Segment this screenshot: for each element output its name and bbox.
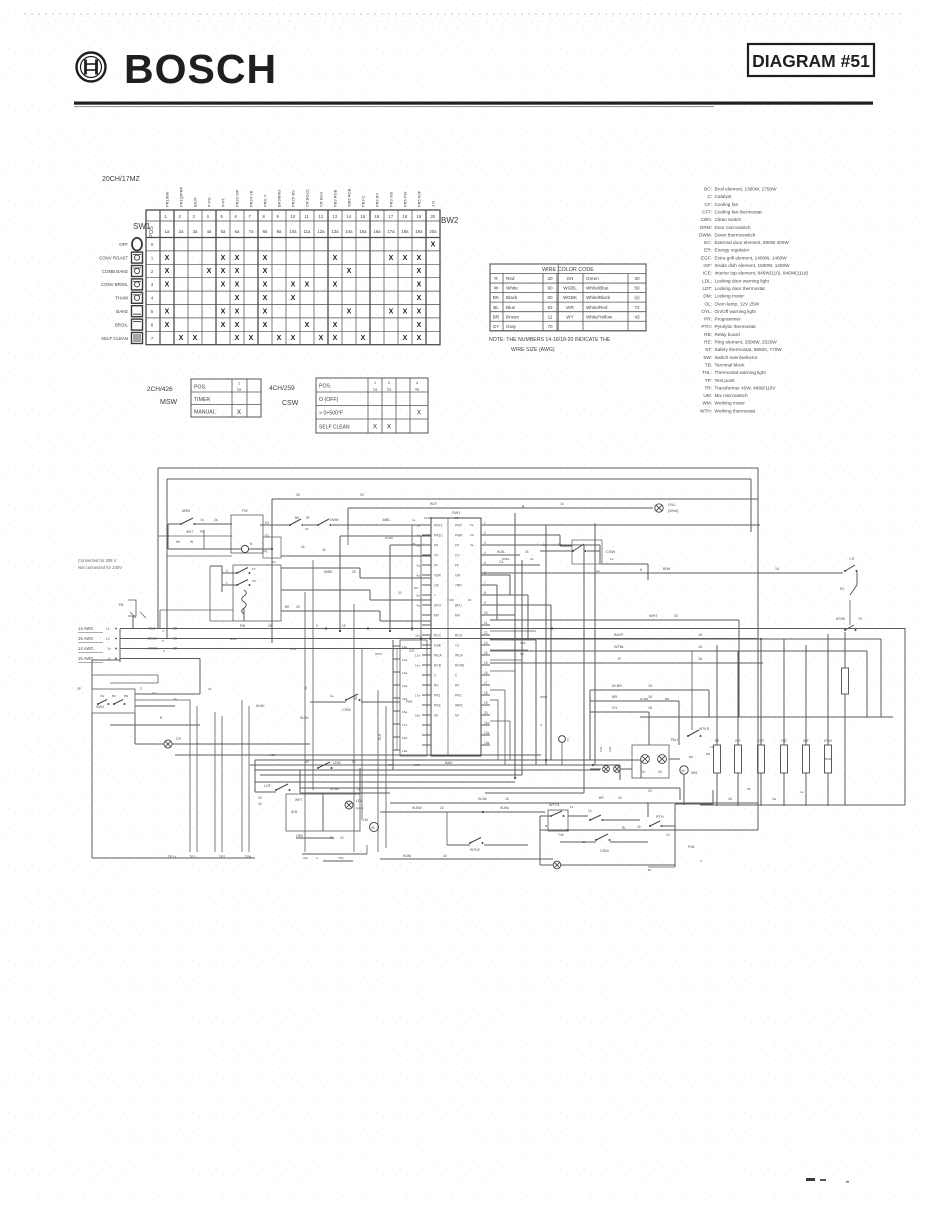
svg-text:(pilot): (pilot) [356, 806, 364, 810]
svg-text:UF: UF [434, 714, 438, 718]
svg-text:CF:: CF: [704, 202, 712, 207]
svg-text:BR: BR [665, 697, 670, 701]
svg-text:OL: OL [641, 770, 646, 774]
svg-text:WM: WM [691, 771, 697, 775]
svg-text:PB3 RGB: PB3 RGB [333, 189, 338, 207]
svg-text:WY: WY [566, 314, 573, 319]
svg-text:WR: WR [566, 305, 574, 310]
svg-text:PR1C: PR1C [434, 534, 443, 538]
svg-text:BROIL: BROIL [115, 322, 129, 327]
svg-text:X: X [165, 255, 170, 262]
svg-text:13a: 13a [402, 671, 407, 675]
svg-text:1a: 1a [800, 790, 804, 794]
svg-text:WIRE SIZE (AWG): WIRE SIZE (AWG) [511, 347, 555, 353]
svg-text:18a: 18a [402, 736, 407, 740]
svg-text:3: 3 [163, 649, 165, 653]
svg-text:White: White [506, 286, 518, 291]
svg-text:13: 13 [484, 641, 488, 645]
svg-text:TIMER: TIMER [194, 397, 210, 403]
svg-text:6: 6 [640, 568, 642, 572]
svg-text:Thermostat warning light: Thermostat warning light [715, 370, 767, 375]
svg-text:W-BW: W-BW [412, 806, 423, 810]
svg-text:24: 24 [525, 550, 529, 554]
svg-text:Relay board: Relay board [715, 332, 741, 337]
svg-text:10a: 10a [289, 229, 297, 234]
svg-text:W-R: W-R [378, 733, 382, 740]
svg-text:X: X [207, 268, 212, 275]
svg-text:X: X [291, 335, 296, 342]
svg-text:COMB BAKE: COMB BAKE [102, 269, 128, 274]
svg-text:16: 16 [698, 645, 702, 649]
svg-text:X: X [403, 255, 408, 262]
svg-text:X: X [417, 268, 422, 275]
svg-text:CR BG(2): CR BG(2) [305, 189, 310, 207]
svg-text:FW: FW [242, 509, 248, 513]
svg-text:4a: 4a [207, 229, 212, 234]
svg-text:B/LW: B/LW [193, 197, 198, 207]
svg-text:20: 20 [468, 598, 472, 602]
svg-text:16: 16 [484, 671, 488, 675]
svg-text:2a: 2a [179, 229, 184, 234]
svg-text:X: X [333, 282, 338, 289]
svg-text:16a: 16a [402, 710, 407, 714]
svg-text:BC:: BC: [704, 187, 712, 192]
svg-text:30: 30 [634, 276, 640, 281]
svg-text:PR:: PR: [704, 317, 712, 322]
svg-text:11a: 11a [484, 721, 489, 725]
svg-text:ATHB: ATHB [836, 617, 846, 621]
svg-text:13: 13 [570, 805, 574, 809]
svg-text:WHT: WHT [295, 798, 302, 802]
svg-text:Door microswitch: Door microswitch [715, 225, 751, 230]
svg-text:X: X [221, 268, 226, 275]
svg-text:20: 20 [352, 760, 356, 764]
svg-text:11a: 11a [415, 634, 420, 638]
svg-text:20: 20 [648, 789, 652, 793]
svg-text:X: X [319, 335, 324, 342]
svg-text:15a: 15a [359, 229, 367, 234]
svg-text:BR: BR [493, 314, 500, 319]
svg-text:BR: BR [599, 796, 604, 800]
svg-text:White/Yellow: White/Yellow [586, 314, 613, 319]
svg-text:82: 82 [547, 305, 553, 310]
svg-text:20: 20 [547, 276, 553, 281]
svg-text:Working thermostat: Working thermostat [715, 408, 756, 413]
svg-text:Programmer: Programmer [715, 317, 741, 322]
svg-text:PR1/BW: PR1/BW [165, 191, 170, 207]
svg-text:X: X [417, 335, 422, 342]
svg-text:Brown: Brown [506, 314, 519, 319]
svg-text:BK6/BW3: BK6/BW3 [277, 189, 282, 207]
svg-text:BOSCH: BOSCH [124, 46, 277, 92]
svg-text:Inside dish element, 1500W, 14: Inside dish element, 1500W, 1400W [715, 263, 791, 268]
svg-text:2: 2 [484, 531, 486, 535]
svg-text:20: 20 [484, 711, 488, 715]
svg-text:PR24 VB: PR24 VB [249, 190, 254, 207]
svg-text:PR1: PR1 [434, 694, 441, 698]
svg-text:16a: 16a [373, 229, 381, 234]
svg-text:LOF: LOF [264, 784, 272, 788]
svg-text:FF: FF [455, 564, 459, 568]
svg-text:16: 16 [698, 657, 702, 661]
svg-text:Hb: Hb [176, 540, 180, 544]
svg-text:(x): (x) [634, 295, 640, 300]
svg-text:11a: 11a [304, 229, 311, 234]
svg-text:SELF CLEAN: SELF CLEAN [101, 336, 128, 341]
svg-text:M: M [372, 826, 375, 830]
svg-text:UF: UF [388, 763, 392, 767]
svg-text:13a: 13a [415, 654, 420, 658]
svg-text:THAW: THAW [115, 296, 129, 301]
svg-text:PR1Q/PRP: PR1Q/PRP [179, 186, 184, 207]
svg-text:7: 7 [484, 581, 486, 585]
svg-text:MV: MV [455, 614, 461, 618]
svg-text:X: X [237, 410, 241, 416]
svg-text:C/R: C/R [520, 641, 526, 645]
svg-text:14 AWG: 14 AWG [78, 646, 93, 651]
svg-text:W-BR: W-BR [640, 697, 649, 701]
svg-text:20: 20 [674, 614, 678, 618]
svg-text:Oven lamp, 12V 25W: Oven lamp, 12V 25W [715, 301, 760, 306]
svg-text:X: X [305, 322, 310, 329]
svg-text:12a: 12a [402, 658, 407, 662]
svg-text:43: 43 [634, 314, 640, 319]
svg-text:25: 25 [352, 570, 356, 574]
svg-text:X: X [263, 295, 268, 302]
svg-text:X: X [417, 411, 421, 417]
svg-text:X: X [431, 241, 436, 248]
svg-text:2P: 2P [77, 687, 81, 691]
svg-text:30: 30 [354, 696, 358, 700]
svg-text:PR25 MV: PR25 MV [291, 190, 296, 207]
svg-text:PALI: PALI [671, 738, 678, 742]
svg-text:X: X [389, 308, 394, 315]
svg-text:X: X [417, 308, 422, 315]
svg-text:12E: 12E [608, 747, 612, 752]
svg-text:W: W [190, 540, 193, 544]
svg-text:GP: GP [414, 586, 418, 590]
svg-text:RB:: RB: [704, 332, 712, 337]
svg-text:Broil element, 1300W, 1750W: Broil element, 1300W, 1750W [715, 187, 778, 192]
svg-text:OFF: OFF [119, 242, 128, 247]
svg-text:MV: MV [434, 614, 440, 618]
svg-text:14 AWG: 14 AWG [78, 626, 93, 631]
svg-text:X: X [333, 335, 338, 342]
svg-text:14a: 14a [415, 664, 420, 668]
svg-text:Gray: Gray [506, 324, 517, 329]
svg-text:CSW: CSW [282, 400, 299, 407]
svg-text:X: X [263, 322, 268, 329]
svg-text:BAKE: BAKE [116, 309, 128, 314]
svg-text:20: 20 [398, 591, 402, 595]
svg-text:11: 11 [710, 745, 713, 749]
svg-text:15 AWG: 15 AWG [78, 656, 93, 661]
svg-text:16: 16 [637, 825, 641, 829]
svg-text:SW1: SW1 [133, 222, 151, 231]
svg-text:ISF:: ISF: [703, 263, 712, 268]
svg-text:SW:: SW: [703, 355, 712, 360]
svg-text:25: 25 [296, 605, 300, 609]
svg-text:X: X [333, 255, 338, 262]
svg-text:2CH/426: 2CH/426 [147, 386, 173, 393]
svg-text:24: 24 [530, 557, 534, 561]
svg-text:X: X [361, 335, 366, 342]
svg-text:17a: 17a [415, 694, 420, 698]
svg-text:SW1: SW1 [452, 510, 461, 515]
svg-text:X: X [221, 282, 226, 289]
svg-text:On/Off warning light: On/Off warning light [715, 309, 757, 314]
svg-text:OYL:: OYL: [701, 309, 712, 314]
svg-text:P-PG: P-PG [207, 197, 212, 207]
svg-text:W-R: W-R [430, 502, 437, 506]
svg-text:11: 11 [484, 621, 488, 625]
svg-text:W/BK: W/BK [324, 570, 333, 574]
svg-text:MANUAL: MANUAL [194, 410, 216, 416]
svg-text:R2: R2 [840, 587, 844, 591]
svg-text:UM:: UM: [703, 393, 712, 398]
svg-text:X: X [700, 859, 702, 863]
svg-text:1a: 1a [610, 557, 614, 561]
svg-text:W-BK: W-BK [256, 704, 266, 708]
svg-text:1.R: 1.R [849, 557, 855, 561]
svg-text:O (OFF): O (OFF) [319, 397, 339, 403]
svg-text:4: 4 [162, 629, 164, 633]
svg-text:WGBL: WGBL [563, 286, 577, 291]
svg-text:FF: FF [434, 564, 438, 568]
svg-text:X: X [263, 255, 268, 262]
svg-text:X: X [165, 322, 170, 329]
svg-text:LDL:: LDL: [702, 278, 712, 283]
svg-text:6a: 6a [235, 229, 240, 234]
svg-text:W-BK: W-BK [300, 716, 310, 720]
svg-text:11: 11 [548, 314, 553, 319]
svg-text:Transformer 40W, 4889/110V: Transformer 40W, 4889/110V [715, 385, 777, 390]
svg-text:B: B [160, 716, 162, 720]
svg-text:2a: 2a [214, 518, 218, 522]
svg-text:W-BL: W-BL [497, 550, 505, 554]
svg-text:14: 14 [484, 651, 488, 655]
svg-text:Switch oven/selector: Switch oven/selector [715, 355, 758, 360]
svg-text:W/BL: W/BL [502, 557, 510, 561]
svg-text:4: 4 [484, 551, 486, 555]
svg-text:2a: 2a [417, 534, 421, 538]
svg-text:34: 34 [322, 548, 326, 552]
svg-text:1a: 1a [165, 229, 170, 234]
svg-text:TB:: TB: [705, 362, 712, 367]
svg-text:PRZ: PRZ [434, 704, 441, 708]
svg-text:14a: 14a [402, 684, 407, 688]
svg-text:WTh'D: WTh'D [699, 727, 710, 731]
svg-text:16: 16 [698, 633, 702, 637]
svg-text:24: 24 [666, 833, 670, 837]
svg-text:W-Bk: W-Bk [330, 787, 339, 791]
svg-text:16: 16 [440, 806, 444, 810]
svg-text:WTH:: WTH: [700, 408, 712, 413]
svg-text:26: 26 [412, 542, 416, 546]
svg-text:B.: B. [545, 824, 548, 828]
svg-text:W/R: W/R [414, 763, 421, 767]
svg-text:24: 24 [305, 527, 309, 531]
svg-text:L: L [226, 581, 228, 585]
svg-text:5a: 5a [417, 564, 421, 568]
svg-text:Interior top element, 846W(110: Interior top element, 846W(110), 846W(11… [715, 271, 809, 276]
svg-text:5: 5 [162, 639, 164, 643]
svg-text:ST:: ST: [705, 347, 712, 352]
svg-text:White/Black: White/Black [586, 295, 611, 300]
svg-text:8a: 8a [263, 229, 268, 234]
svg-text:12a: 12a [317, 229, 325, 234]
svg-text:BR: BR [285, 605, 290, 609]
svg-text:CSW: CSW [606, 549, 616, 554]
svg-text:PRY1: PRY1 [434, 524, 443, 528]
svg-text:PR5 RJF: PR5 RJF [417, 190, 422, 207]
svg-text:2: 2 [388, 381, 390, 385]
svg-text:AQ: AQ [263, 549, 268, 553]
svg-text:ICE:: ICE: [703, 271, 712, 276]
svg-text:WIRE COLOR CODE: WIRE COLOR CODE [542, 267, 594, 273]
svg-text:X: X [347, 308, 352, 315]
svg-text:WCA: WCA [434, 654, 442, 658]
svg-text:3a: 3a [193, 229, 198, 234]
svg-text:PR3 WS: PR3 WS [389, 191, 394, 207]
svg-text:TP2: TP2 [219, 855, 226, 859]
svg-text:W-BR: W-BR [612, 684, 622, 688]
svg-text:OVL: OVL [668, 503, 676, 507]
svg-text:Catalyst: Catalyst [715, 194, 733, 199]
svg-text:PB3 C: PB3 C [361, 195, 366, 207]
svg-text:12a: 12a [484, 731, 490, 735]
svg-text:19: 19 [417, 214, 422, 219]
svg-text:DWM: DWM [330, 518, 339, 522]
svg-text:Mix microswitch: Mix microswitch [715, 393, 748, 398]
svg-text:PRP: PRP [455, 524, 463, 528]
svg-text:C2: C2 [520, 652, 524, 656]
svg-text:18: 18 [648, 695, 652, 699]
svg-text:LRM: LRM [296, 834, 303, 838]
svg-text:Terminal block: Terminal block [715, 362, 746, 367]
svg-text:OL: OL [658, 770, 663, 774]
svg-text:9: 9 [316, 624, 318, 628]
svg-text:PR5 PW: PR5 PW [403, 191, 408, 207]
svg-text:Extra grill element, 1400W, 14: Extra grill element, 1400W, 1460W [715, 255, 788, 260]
svg-text:Wh/te/Blue: Wh/te/Blue [586, 286, 609, 291]
svg-text:Safety thermostat, 86500, 770W: Safety thermostat, 86500, 770W [715, 347, 783, 352]
svg-text:17: 17 [389, 214, 394, 219]
svg-text:X: X [333, 322, 338, 329]
svg-text:Ring element, 2500W, 2520W: Ring element, 2500W, 2520W [715, 340, 778, 345]
svg-text:Down thermoswitch: Down thermoswitch [715, 232, 756, 237]
svg-text:X: X [263, 268, 268, 275]
svg-text:PR2: PR2 [455, 694, 462, 698]
svg-text:LDF: LDF [270, 753, 276, 757]
svg-text:X: X [249, 335, 254, 342]
svg-text:X: X [305, 282, 310, 289]
svg-text:90: 90 [547, 286, 553, 291]
svg-text:19: 19 [484, 701, 488, 705]
svg-text:W/R: W/R [290, 647, 297, 651]
svg-text:3a: 3a [470, 543, 474, 547]
svg-text:LW: LW [100, 694, 104, 698]
svg-text:C:: C: [707, 194, 712, 199]
svg-text:12: 12 [484, 631, 488, 635]
svg-text:10: 10 [152, 691, 156, 695]
svg-text:WTH2: WTH2 [470, 848, 480, 852]
svg-text:X: X [221, 255, 226, 262]
svg-text:W-BK: W-BK [385, 536, 394, 540]
svg-text:7 RR: 7 RR [447, 598, 455, 602]
svg-text:RV: RV [455, 684, 460, 688]
svg-text:PR23 WP: PR23 WP [235, 189, 240, 207]
svg-text:3a: 3a [417, 544, 421, 548]
svg-text:Working motor: Working motor [715, 401, 746, 406]
svg-text:W-Bk: W-Bk [403, 854, 412, 858]
svg-text:1a: 1a [772, 797, 776, 801]
svg-text:GY: GY [612, 706, 618, 710]
svg-text:Red: Red [506, 276, 515, 281]
svg-text:BL: BL [566, 828, 570, 832]
svg-text:X: X [235, 295, 240, 302]
svg-text:(Whd): (Whd) [668, 509, 679, 513]
svg-text:X: X [417, 322, 422, 329]
svg-text:Connected for 208 V: Connected for 208 V [78, 558, 117, 563]
svg-text:W-BK: W-BK [424, 516, 433, 520]
svg-text:TB: TB [118, 602, 123, 607]
svg-text:EC:: EC: [704, 240, 712, 245]
svg-text:L2: L2 [106, 637, 110, 641]
svg-text:X: X [221, 308, 226, 315]
svg-text:CSW: CSW [342, 708, 351, 712]
svg-text:X: X [347, 268, 352, 275]
svg-text:16: 16 [505, 797, 509, 801]
svg-text:WHT: WHT [649, 614, 658, 618]
svg-text:16: 16 [375, 214, 380, 219]
svg-text:TP1-: TP1- [189, 855, 198, 859]
svg-text:25: 25 [455, 516, 459, 520]
svg-text:GN: GN [567, 276, 574, 281]
svg-text:13: 13 [333, 214, 338, 219]
svg-text:P-PT: P-PT [221, 197, 226, 207]
svg-text:18a: 18a [401, 229, 409, 234]
svg-text:3d/BL: 3d/BL [382, 518, 391, 522]
svg-text:W-Bk: W-Bk [478, 797, 487, 801]
svg-text:W-Bw: W-Bw [500, 806, 510, 810]
svg-text:15: 15 [484, 661, 488, 665]
svg-text:PR2 BV: PR2 BV [375, 192, 380, 207]
svg-text:50: 50 [634, 286, 640, 291]
svg-text:External door element, 800W 40: External door element, 800W 400W [715, 240, 790, 245]
svg-text:RE:: RE: [704, 340, 712, 345]
svg-text:16: 16 [728, 797, 732, 801]
svg-text:11: 11 [305, 214, 310, 219]
svg-text:SELF CLEAN: SELF CLEAN [319, 425, 350, 431]
svg-text:UF: UF [455, 714, 459, 718]
svg-text:RV: RV [434, 684, 439, 688]
svg-text:70: 70 [858, 617, 862, 621]
svg-text:20CH/17MZ: 20CH/17MZ [102, 176, 140, 183]
svg-text:X: X [417, 255, 422, 262]
svg-text:A2: A2 [272, 560, 276, 564]
svg-text:19a: 19a [402, 749, 407, 753]
svg-text:1a: 1a [543, 543, 547, 547]
svg-text:X: X [235, 255, 240, 262]
svg-text:X: X [277, 335, 282, 342]
svg-text:RC4B: RC4B [455, 664, 465, 668]
svg-text:6a: 6a [417, 574, 421, 578]
svg-text:72: 72 [634, 305, 640, 310]
svg-text:WM:: WM: [702, 401, 712, 406]
svg-text:12K: 12K [599, 747, 603, 752]
svg-text:20: 20 [340, 836, 344, 840]
